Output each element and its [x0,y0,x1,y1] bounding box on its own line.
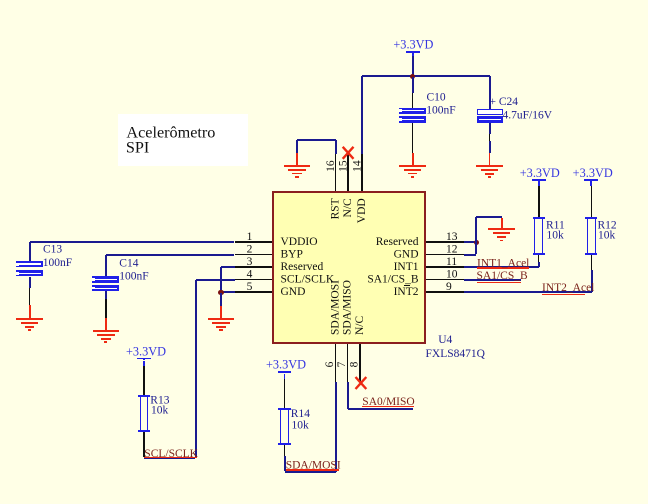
svg-text:GND: GND [281,286,306,298]
svg-text:SDA/MOSI: SDA/MOSI [330,280,342,335]
svg-text:Reserved: Reserved [376,236,419,248]
svg-text:U4: U4 [438,334,452,346]
svg-text:SDA/MOSI: SDA/MOSI [286,460,341,472]
svg-text:INT1: INT1 [394,261,419,273]
svg-text:100nF: 100nF [43,257,72,269]
svg-text:4: 4 [247,268,253,280]
svg-text:10k: 10k [598,230,616,242]
svg-text:R14: R14 [291,408,310,420]
svg-text:BYP: BYP [281,249,303,261]
svg-text:100nF: 100nF [119,271,148,283]
svg-text:7: 7 [336,361,348,367]
svg-text:+ C24: + C24 [490,96,519,108]
svg-text:14: 14 [352,160,364,172]
svg-text:INT2_Acel: INT2_Acel [542,282,594,294]
svg-text:RST: RST [330,198,342,219]
svg-text:3: 3 [247,256,253,268]
svg-text:15: 15 [338,160,350,172]
svg-text:100nF: 100nF [426,105,455,117]
svg-text:6: 6 [324,361,336,367]
svg-text:+3.3VD: +3.3VD [126,344,166,358]
svg-text:SA0/MISO: SA0/MISO [362,396,414,408]
svg-text:10k: 10k [151,404,169,416]
svg-text:N/C: N/C [354,316,366,336]
svg-text:10k: 10k [547,230,565,242]
svg-text:N/C: N/C [342,198,354,218]
svg-text:+3.3VD: +3.3VD [520,166,560,180]
svg-text:SA1/CS_B: SA1/CS_B [477,270,528,282]
svg-text:2: 2 [247,243,253,255]
svg-text:VDDIO: VDDIO [281,236,318,248]
svg-text:SA1/CS_B: SA1/CS_B [367,274,418,286]
svg-text:C13: C13 [43,244,62,256]
svg-text:SCL/SCLK: SCL/SCLK [144,448,198,460]
svg-text:8: 8 [348,361,360,367]
svg-text:FXLS8471Q: FXLS8471Q [426,348,486,360]
svg-text:13: 13 [446,231,458,243]
svg-text:5: 5 [247,281,253,293]
svg-text:SPI: SPI [126,139,149,157]
svg-text:SCL/SCLK: SCL/SCLK [281,274,335,286]
svg-text:C14: C14 [119,257,138,269]
svg-text:9: 9 [446,281,452,293]
svg-text:+3.3VD: +3.3VD [393,38,433,52]
svg-text:SDA/MISO: SDA/MISO [342,280,354,335]
svg-text:10: 10 [446,268,458,280]
svg-text:10k: 10k [292,419,310,431]
svg-text:INT2: INT2 [394,286,419,298]
svg-text:+3.3VD: +3.3VD [573,166,613,180]
svg-text:GND: GND [394,249,419,261]
svg-text:VDD: VDD [356,198,368,223]
svg-text:Reserved: Reserved [281,261,324,273]
svg-text:4.7uF/16V: 4.7uF/16V [503,109,553,121]
svg-text:1: 1 [247,231,253,243]
svg-text:12: 12 [446,243,458,255]
svg-text:+3.3VD: +3.3VD [266,358,306,372]
svg-text:16: 16 [325,160,337,172]
svg-text:11: 11 [446,256,457,268]
svg-text:INT1_Acel: INT1_Acel [477,258,529,270]
svg-text:C10: C10 [427,91,446,103]
